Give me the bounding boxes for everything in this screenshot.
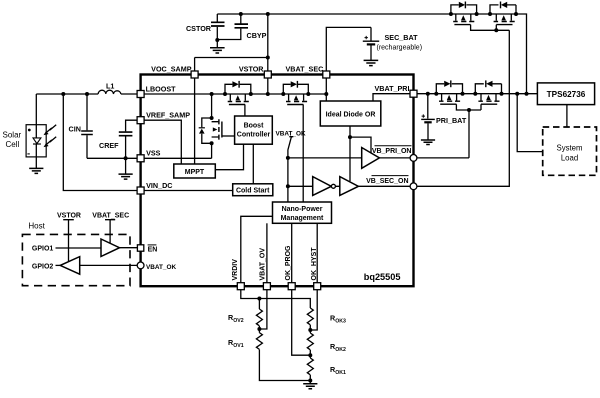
svg-text:PRI_BAT: PRI_BAT xyxy=(436,116,467,125)
wire VB_PRI_ON line xyxy=(417,157,469,159)
pin LBOOST xyxy=(137,91,144,98)
wire top pair gate link to VB_SEC_ON xyxy=(471,25,510,31)
capacitor CREF xyxy=(126,120,141,131)
svg-text:MPPT: MPPT xyxy=(185,169,205,176)
op-amp buffer VB_SEC chain 2 xyxy=(340,177,359,196)
transistor Q4 lower pair right PMOS xyxy=(473,80,503,104)
resistor ROK2 xyxy=(307,330,313,355)
svg-text:Boost: Boost xyxy=(244,123,265,130)
wire VBAT_PRI stub from ideal diode xyxy=(373,94,414,101)
wire nano to VRDIV xyxy=(241,216,273,286)
wire lower pair gate link to VB_PRI_ON xyxy=(456,104,481,158)
svg-text:L1: L1 xyxy=(106,82,114,91)
wire VOC_SAMP jog xyxy=(195,58,268,75)
op-amp buffer VBAT_OK-GPIO2 xyxy=(60,257,79,275)
resistor ROK1 xyxy=(307,355,313,383)
pin VSTOR xyxy=(264,71,271,78)
svg-text:VSS: VSS xyxy=(146,149,161,158)
pin VIN_DC xyxy=(137,187,144,194)
ground under CREF xyxy=(125,158,127,174)
node CBYP to CSTOR junction xyxy=(239,12,243,16)
pin OK_HYST xyxy=(314,283,321,290)
wire VBAT_PRI rail to TPS62736 xyxy=(417,93,538,95)
wire nano to OK_PROG xyxy=(291,223,293,286)
ground under resistor chains xyxy=(303,384,317,389)
inductor L1 xyxy=(98,90,121,94)
svg-text:VBAT_OK: VBAT_OK xyxy=(146,264,176,271)
capacitor CIN xyxy=(86,94,88,130)
svg-text:OK_HYST: OK_HYST xyxy=(311,247,318,281)
svg-text:Cold Start: Cold Start xyxy=(236,188,270,195)
battery SEC_BAT xyxy=(326,27,371,74)
svg-text:CBYP: CBYP xyxy=(247,31,267,40)
capacitor CBYP xyxy=(240,14,242,25)
wire VRDIV down and across xyxy=(241,290,310,308)
pin VB_SEC_ON xyxy=(410,183,417,190)
svg-text:CSTOR: CSTOR xyxy=(186,24,212,33)
component TPS62736 box xyxy=(537,83,594,105)
transistor Q3 lower pair left PMOS xyxy=(434,80,464,104)
component Nano-Power Management box xyxy=(273,202,332,223)
svg-text:VB_PRI_ON: VB_PRI_ON xyxy=(372,148,412,155)
op-amp buffer GPIO1-EN xyxy=(101,239,120,257)
ground under solar cell xyxy=(29,168,43,173)
wire VSS inside IC xyxy=(141,157,212,159)
pin VBAT_OV xyxy=(263,283,270,290)
pin VREF_SAMP xyxy=(137,117,144,124)
transistor Q7 PMOS to VBAT_SEC xyxy=(281,81,310,202)
svg-text:GPIO1: GPIO1 xyxy=(32,246,54,253)
svg-text:Cell: Cell xyxy=(6,140,20,149)
resistor ROK3 xyxy=(307,308,313,330)
svg-text:bq25505: bq25505 xyxy=(364,272,401,282)
pin VB_PRI_ON xyxy=(410,155,417,162)
pin VBAT_OK xyxy=(137,262,144,269)
svg-text:VB_SEC_ON: VB_SEC_ON xyxy=(366,178,408,185)
pin VOC_SAMP xyxy=(191,71,198,78)
wire VBAT_OV down xyxy=(259,290,267,329)
svg-text:GPIO2: GPIO2 xyxy=(32,263,54,270)
host dashed box xyxy=(22,234,130,285)
wire buffer input VB_SEC xyxy=(288,185,313,187)
pin VRDIV xyxy=(237,283,244,290)
wire VB_SEC_ON long line xyxy=(417,30,509,186)
component Ideal Diode OR box xyxy=(320,101,381,126)
wire VSTOR vertical from rail to pin xyxy=(267,14,269,75)
svg-text:Controller: Controller xyxy=(237,132,271,139)
photodiode solar xyxy=(33,138,41,144)
ground under CSTOR xyxy=(216,40,218,48)
svg-text:Ideal Diode OR: Ideal Diode OR xyxy=(326,111,376,118)
svg-text:LBOOST: LBOOST xyxy=(146,85,177,94)
node VSTOR/VOC jog junction xyxy=(266,56,270,60)
svg-text:Solar: Solar xyxy=(3,131,22,140)
component Boost Controller box xyxy=(235,116,273,144)
transistor Q6 PMOS rectifier xyxy=(223,81,253,116)
wire VIN_DC route xyxy=(63,94,140,191)
svg-text:VBAT_SEC: VBAT_SEC xyxy=(92,213,129,220)
transistor Q2 top pair right PMOS xyxy=(488,2,518,25)
svg-text:TPS62736: TPS62736 xyxy=(547,90,586,99)
wire VBAT_SEC drop into ideal diode xyxy=(325,75,327,102)
svg-text:SEC_BAT: SEC_BAT xyxy=(385,33,419,42)
wire OK_PROG down xyxy=(292,290,311,356)
svg-text:Load: Load xyxy=(561,154,578,163)
wire solar to LBOOST xyxy=(36,93,140,95)
capacitor CSTOR xyxy=(216,14,218,23)
pin OK_PROG xyxy=(288,283,295,290)
IC boundary bq25505 xyxy=(141,75,414,287)
wire VOC_SAMP drop to MPPT xyxy=(194,75,196,165)
svg-text:VBAT_OV: VBAT_OV xyxy=(259,248,266,281)
op-amp inverter VB_SEC chain 1 xyxy=(313,177,332,196)
pin EN xyxy=(137,245,143,251)
component System Load dashed box xyxy=(543,127,597,175)
svg-text:VBAT_SEC: VBAT_SEC xyxy=(286,65,324,74)
wire VSTOR drop xyxy=(267,75,269,95)
component MPPT box xyxy=(174,164,216,178)
wire VREF_SAMP to MPPT xyxy=(141,120,182,164)
wire driver input VB_PRI xyxy=(288,157,362,159)
node solar branch junctions xyxy=(61,92,65,96)
svg-text:EN: EN xyxy=(148,247,158,254)
svg-text:VREF_SAMP: VREF_SAMP xyxy=(146,111,190,120)
resistor ROV2 xyxy=(256,299,262,330)
svg-text:VRDIV: VRDIV xyxy=(232,259,239,281)
wire Boost to MPPT xyxy=(215,144,243,170)
wire LBOOST rail to VBAT_SEC node xyxy=(141,93,327,95)
wire system load feed xyxy=(517,94,543,152)
solar cell box xyxy=(26,125,46,157)
wire nano to OK_HYST xyxy=(316,223,318,286)
battery PRI_BAT xyxy=(427,94,429,119)
op-amp driver VB_PRI_ON xyxy=(362,148,380,169)
svg-text:Host: Host xyxy=(28,222,45,231)
svg-text:OK_PROG: OK_PROG xyxy=(285,245,292,281)
transistor Q5 NMOS boost low side xyxy=(199,94,235,158)
svg-text:VSTOR: VSTOR xyxy=(239,65,264,74)
wire VSS external xyxy=(87,157,141,159)
svg-text:VSTOR: VSTOR xyxy=(57,213,81,220)
svg-text:Nano-Power: Nano-Power xyxy=(282,206,323,213)
svg-text:VIN_DC: VIN_DC xyxy=(146,181,172,190)
wire ideal diode output tree xyxy=(350,126,371,181)
svg-text:VBAT_PRI: VBAT_PRI xyxy=(374,84,409,93)
solar plus mark xyxy=(28,129,31,132)
svg-text:VOC_SAMP: VOC_SAMP xyxy=(151,65,192,74)
svg-text:CIN: CIN xyxy=(69,125,81,134)
node LBOOST tap for NMOS xyxy=(210,92,214,96)
resistor ROV1 xyxy=(256,329,310,381)
svg-text:Management: Management xyxy=(281,215,324,222)
svg-text:(rechargeable): (rechargeable) xyxy=(377,45,423,52)
svg-text:CREF: CREF xyxy=(99,141,119,150)
light arrows xyxy=(44,125,57,147)
wire OK_HYST down xyxy=(310,290,317,330)
wire TPS to system load xyxy=(566,105,568,127)
wire top rail VSTOR to external pair xyxy=(217,14,526,94)
wire VIN_DC to Cold Start xyxy=(141,190,233,192)
svg-text:System: System xyxy=(557,144,583,153)
node rail/VSTOR junction xyxy=(266,12,270,16)
pin VBAT_SEC xyxy=(323,71,330,78)
pin VBAT_PRI xyxy=(410,90,417,97)
wire nano to VBAT_OV xyxy=(266,223,268,286)
wire Boost to Cold Start xyxy=(252,144,254,184)
transistor Q1 top pair left PMOS xyxy=(449,2,479,25)
pin VSS xyxy=(137,155,144,162)
component Cold Start box xyxy=(233,184,273,196)
